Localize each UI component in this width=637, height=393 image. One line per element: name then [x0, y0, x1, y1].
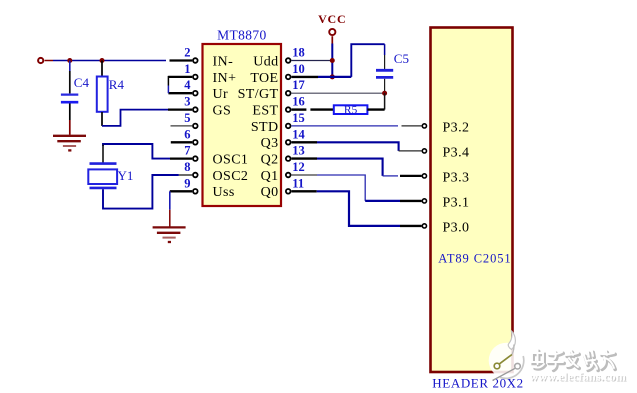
- resistor R5: [334, 104, 368, 116]
- node junction VCC pin18: [330, 58, 335, 63]
- wire R4 bottom to GS pin 3: [102, 110, 192, 126]
- capacitor C5: [376, 51, 409, 77]
- wire pin 16 EST to R5: [291, 108, 306, 110]
- wire VCC node over to C5 top: [351, 44, 384, 77]
- svg-text:10: 10: [292, 62, 305, 76]
- wire C4 top lead: [69, 61, 71, 72]
- ic U1 MT8870 body: [203, 27, 282, 206]
- svg-text:15: 15: [292, 111, 305, 125]
- ic U1 right pin circles: [286, 58, 291, 193]
- svg-text:7: 7: [184, 144, 190, 158]
- svg-text:12: 12: [292, 160, 305, 174]
- wire pin 12 Q1 to P3.1: [291, 175, 421, 201]
- svg-text:Uss: Uss: [213, 185, 235, 200]
- svg-text:4: 4: [184, 78, 191, 92]
- svg-text:5: 5: [184, 111, 190, 125]
- svg-text:GS: GS: [213, 104, 232, 119]
- wire pin 17 ST/GT: [291, 92, 384, 94]
- node junction VCC pin10: [330, 74, 335, 79]
- svg-text:www.elecfans.com: www.elecfans.com: [530, 369, 627, 383]
- wire R4 top lead: [101, 61, 103, 77]
- wire pin 18 Udd to VCC: [291, 60, 330, 62]
- node junction C5 pin17: [382, 91, 387, 96]
- svg-text:P3.4: P3.4: [443, 145, 470, 160]
- svg-text:2: 2: [184, 46, 190, 60]
- wire pin 10 TOE to VCC: [291, 76, 351, 78]
- resistor R4: [97, 77, 125, 112]
- ic U1 left pin numbers: [184, 46, 191, 191]
- svg-text:EST: EST: [252, 104, 278, 119]
- wire pin 6 stub: [171, 141, 192, 143]
- svg-text:MT8870: MT8870: [217, 27, 267, 42]
- svg-text:IN-: IN-: [213, 54, 234, 69]
- wire R5 right lead: [367, 108, 384, 110]
- svg-text:ST/GT: ST/GT: [238, 87, 279, 102]
- wire Uss pin 9 to ground: [170, 191, 192, 226]
- svg-text:R4: R4: [109, 77, 125, 92]
- svg-text:C4: C4: [74, 75, 90, 90]
- svg-text:Q2: Q2: [261, 153, 279, 168]
- svg-text:P3.2: P3.2: [443, 120, 470, 135]
- crystal Y1: [88, 164, 133, 188]
- watermark logo disc: [489, 331, 525, 381]
- node junction R4 tap: [100, 58, 105, 63]
- wire crystal top to OSC1 pin 7: [103, 144, 192, 163]
- svg-text:Q1: Q1: [261, 169, 279, 184]
- wire pin 11 Q0 to P3.0: [291, 191, 421, 226]
- svg-text:Y1: Y1: [118, 168, 134, 183]
- wire pin 13 Q2 to P3.3: [291, 159, 421, 176]
- wire C4 bottom lead: [69, 104, 71, 135]
- svg-text:P3.0: P3.0: [443, 220, 470, 235]
- svg-text:P3.3: P3.3: [443, 170, 470, 185]
- wire IN+ pin 1 to Ur pin 4 loop: [168, 76, 192, 93]
- svg-text:16: 16: [292, 95, 305, 109]
- svg-text:13: 13: [292, 144, 305, 158]
- connector J1 pin labels: [443, 120, 470, 235]
- ic U1 right pin labels: [238, 54, 279, 200]
- ground under Uss: [153, 227, 186, 242]
- ic U1 left pin labels: [213, 54, 249, 200]
- wire pin 5 stub: [171, 125, 193, 127]
- svg-text:3: 3: [184, 95, 190, 109]
- svg-text:Udd: Udd: [253, 54, 278, 69]
- svg-text:1: 1: [184, 62, 190, 76]
- svg-text:OSC1: OSC1: [213, 153, 249, 168]
- wire pin 15 STD to P3.2: [291, 125, 421, 127]
- wire C5 bottom to pin 17 node: [384, 79, 386, 93]
- svg-text:Q0: Q0: [261, 185, 279, 200]
- svg-text:18: 18: [292, 46, 305, 60]
- node junction C4 tap: [67, 58, 72, 63]
- svg-text:17: 17: [292, 78, 305, 92]
- connector J1 HEADER 20X2 body: [431, 28, 513, 373]
- watermark text elecfans: [532, 350, 615, 370]
- svg-text:11: 11: [292, 176, 304, 190]
- svg-text:OSC2: OSC2: [213, 169, 249, 184]
- wire VCC down to pin 10 row: [331, 44, 333, 77]
- wire pin 14 Q3 to P3.4: [291, 142, 421, 151]
- svg-text:R5: R5: [344, 104, 358, 116]
- svg-text:AT89 C2051: AT89 C2051: [438, 251, 511, 265]
- ic U1 right pin numbers: [292, 46, 305, 191]
- ground under C4: [53, 136, 86, 151]
- svg-text:14: 14: [292, 127, 305, 141]
- svg-text:Q3: Q3: [261, 136, 279, 151]
- svg-text:VCC: VCC: [318, 12, 346, 26]
- svg-text:8: 8: [184, 160, 190, 174]
- input terminal: [38, 58, 53, 63]
- svg-text:9: 9: [184, 176, 190, 190]
- svg-text:6: 6: [184, 127, 190, 141]
- power VCC symbol: [318, 12, 346, 44]
- connector J1 pin circles: [422, 124, 426, 228]
- capacitor C4: [61, 75, 90, 102]
- wire pin17 node down to R5 right: [384, 93, 386, 109]
- svg-text:C5: C5: [394, 51, 409, 66]
- ic U1 left pin circles: [193, 58, 198, 193]
- wire crystal bottom to OSC2 pin 8: [103, 175, 192, 209]
- svg-text:P3.1: P3.1: [443, 195, 470, 210]
- svg-text:IN+: IN+: [213, 71, 237, 86]
- svg-text:TOE: TOE: [250, 71, 278, 86]
- svg-text:STD: STD: [251, 120, 279, 135]
- watermark text www.elecfans.com: [530, 369, 628, 384]
- wire input to pin 2 IN-: [53, 60, 192, 62]
- svg-text:Ur: Ur: [213, 87, 229, 102]
